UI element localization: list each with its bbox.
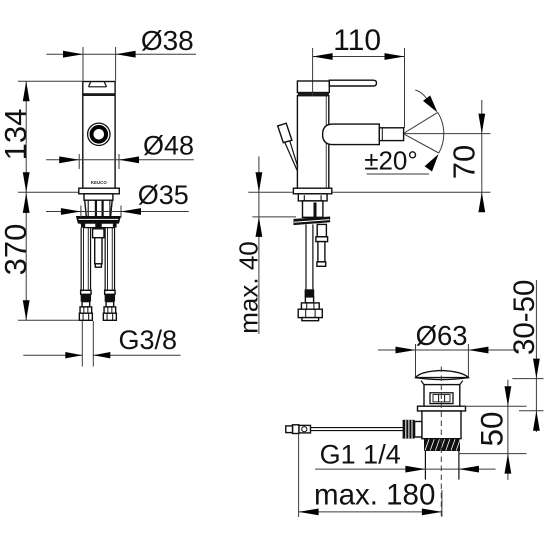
svg-text:50: 50 (474, 411, 510, 446)
svg-text:KEUCO: KEUCO (91, 180, 107, 185)
svg-text:370: 370 (0, 224, 33, 276)
svg-text:Ø35: Ø35 (138, 180, 189, 210)
svg-text:110: 110 (333, 24, 381, 57)
svg-text:±20°: ±20° (364, 146, 418, 176)
svg-text:max. 40: max. 40 (234, 241, 264, 334)
svg-text:G1 1/4: G1 1/4 (320, 440, 401, 470)
svg-text:Ø63: Ø63 (416, 320, 468, 351)
svg-text:70: 70 (446, 145, 481, 179)
svg-text:Ø38: Ø38 (141, 25, 194, 56)
svg-text:134: 134 (0, 109, 33, 161)
svg-text:G3/8: G3/8 (119, 325, 178, 355)
svg-text:max. 180: max. 180 (314, 478, 435, 511)
svg-text:Ø48: Ø48 (143, 131, 194, 161)
svg-text:30-50: 30-50 (508, 280, 541, 355)
